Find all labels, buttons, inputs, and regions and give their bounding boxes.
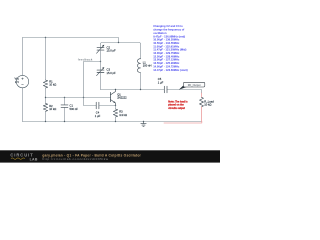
svg-text:9 V: 9 V [15, 80, 19, 84]
svg-text:500 nF: 500 nF [70, 107, 79, 111]
voltage source V1 [16, 75, 28, 87]
wire feedback branch [84, 62, 101, 106]
svg-text:Vcc: Vcc [15, 76, 20, 80]
svg-text:2N2222: 2N2222 [117, 96, 127, 100]
wire tank top [101, 43, 141, 59]
svg-text:15.0 pF: 15.0 pF [107, 49, 116, 53]
resistor R2 [45, 98, 47, 104]
capacitor C1 [64, 98, 66, 105]
svg-text:1 µF: 1 µF [95, 114, 101, 118]
node emitter junction [115, 105, 116, 106]
svg-text:feedback: feedback [78, 58, 93, 62]
svg-text:10 kΩ: 10 kΩ [204, 103, 211, 107]
svg-text:14.47pF - 123.60MHz (start): 14.47pF - 123.60MHz (start) [153, 68, 188, 72]
ground [141, 122, 146, 127]
resistor R1 [45, 38, 47, 81]
resistor R_Load [201, 93, 203, 97]
svg-text:15.0 pF: 15.0 pF [107, 71, 116, 75]
annotation blue text block [153, 24, 188, 72]
svg-text:100 nH: 100 nH [143, 64, 152, 68]
annotation red note [168, 100, 188, 110]
footer bar [0, 150, 220, 162]
annotation red underline [164, 121, 202, 123]
capacitor C5 [164, 86, 167, 93]
svg-text:RF_Output: RF_Output [188, 83, 201, 87]
wire base rail [46, 97, 111, 99]
svg-text:LAB: LAB [30, 157, 38, 161]
node feedback [100, 61, 101, 62]
inductor L1 [137, 59, 140, 73]
svg-text:10 kΩ: 10 kΩ [49, 107, 56, 111]
capacitor C3 variable [97, 70, 104, 72]
node junction top rail to tank [118, 42, 119, 43]
svg-text:1 µF: 1 µF [158, 80, 164, 84]
wire tank bottom / output rail [101, 89, 165, 91]
flag RF_Output [179, 85, 187, 90]
wire top supply rail [23, 38, 119, 43]
svg-text:10 kΩ: 10 kΩ [49, 83, 56, 87]
footer logo CIRCUIT LAB [10, 152, 141, 161]
capacitor C4 [96, 102, 99, 109]
svg-text:http://circuitlab.com/c4dxzdt0: http://circuitlab.com/c4dxzdt035tkw [42, 157, 108, 161]
transistor Q1 2N2222 [110, 92, 112, 101]
resistor R3 [115, 106, 117, 110]
wire bottom rail [23, 121, 202, 123]
svg-text:circuits output: circuits output [168, 107, 185, 110]
voltage source V1 wires [22, 38, 24, 76]
node junction R1 top [45, 37, 46, 38]
capacitor C2 variable [97, 48, 104, 50]
svg-text:3.3 kΩ: 3.3 kΩ [119, 113, 127, 117]
